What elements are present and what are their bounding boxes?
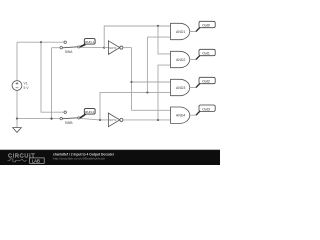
node Out2 flag (196, 83, 200, 87)
node ground column junction (50, 118, 52, 120)
wire NOT1 output (123, 47, 132, 49)
wire AND2 output (190, 59, 196, 61)
wire net B up to AND1 lower (147, 37, 170, 92)
wire ground lead (16, 119, 18, 128)
wire SWB common to NOT2 (80, 118, 100, 120)
wire SWA bottom throw to ground column (52, 47, 61, 49)
switch SWB (64, 111, 66, 113)
svg-text:AND4: AND4 (176, 114, 185, 118)
switch SWA (64, 41, 66, 43)
wire NOT2 output net nB (123, 119, 171, 121)
node nA tap (130, 81, 132, 83)
wire net nB up to AND2 lower (158, 65, 171, 120)
svg-text:AND3: AND3 (176, 86, 185, 90)
wire top +5V rail (17, 41, 64, 43)
wire AND1 output (190, 31, 196, 33)
wire V1 top lead (16, 42, 18, 80)
node +5V rail tap (40, 41, 42, 43)
svg-text:Out0: Out0 (202, 24, 210, 28)
svg-text:NOT2: NOT2 (109, 118, 117, 122)
node B at NOT2 input (99, 119, 101, 121)
svg-text:Out3: Out3 (202, 107, 210, 111)
voltage source V1 (12, 81, 22, 91)
svg-text:Out1: Out1 (202, 52, 210, 56)
svg-text:SWB: SWB (65, 121, 73, 125)
svg-text:RUN 2: RUN 2 (85, 110, 94, 114)
svg-text:AND2: AND2 (176, 58, 185, 62)
svg-text:NOT1: NOT1 (109, 46, 117, 50)
svg-text:AND1: AND1 (176, 30, 185, 34)
wire AND4 output (190, 114, 196, 116)
svg-text:5 V: 5 V (24, 86, 30, 90)
footer bar (0, 150, 220, 165)
wire net A down to AND2 upper (158, 26, 171, 54)
svg-text:http://circuitlab.com/c/99babb: http://circuitlab.com/c/99babbhybhode (53, 157, 105, 161)
wire ground rail (17, 118, 60, 120)
node A at NOT1 input (103, 47, 105, 49)
ground (13, 128, 22, 133)
node nB tap (157, 119, 159, 121)
wire V1 bottom lead (16, 90, 18, 118)
gate AND1 (171, 23, 190, 39)
node A tap (157, 25, 159, 27)
wire +5V drop to SWB (41, 42, 64, 112)
op-amp NOT2 (108, 113, 119, 127)
node B tap (146, 91, 148, 93)
gate AND4 (171, 107, 190, 123)
svg-text:RUN 1: RUN 1 (85, 40, 94, 44)
switch flag SWA button (80, 44, 85, 47)
node ground junction (16, 118, 18, 120)
wire net B up and over to AND3 lower (100, 92, 171, 120)
gate AND3 (171, 79, 190, 95)
wire AND3 output (190, 87, 196, 89)
wire net nA to AND4 upper (132, 109, 171, 111)
op-amp NOT1 (104, 47, 108, 49)
wire net nA column (131, 48, 133, 111)
wire ground column (51, 48, 53, 119)
switch flag SWB button (80, 114, 85, 118)
node Out0 flag (196, 27, 200, 31)
gate AND2 (171, 51, 190, 67)
node Out3 flag (196, 111, 200, 115)
node Out1 flag (196, 55, 200, 59)
svg-text:Out2: Out2 (202, 80, 210, 84)
svg-text:LAB: LAB (32, 158, 40, 163)
svg-text:SWA: SWA (65, 50, 73, 54)
wire SWA common to NOT1 (80, 46, 104, 48)
wire net nA to AND3 upper (132, 81, 171, 83)
wire net A up and over to AND1 (104, 26, 170, 48)
